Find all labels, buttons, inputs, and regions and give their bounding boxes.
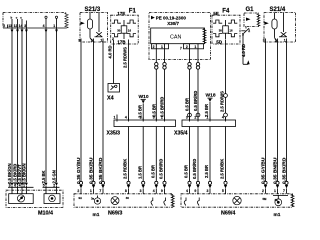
svg-text:1: 1: [53, 24, 55, 28]
svg-text:2: 2: [262, 189, 264, 193]
connector arrows below top-left box: [11, 30, 58, 33]
wire pin1 to M10/4 pin2: [56, 28, 58, 182]
wire CAN-L right to X35/4: [189, 49, 191, 63]
M10/4 pin rail right: [43, 186, 60, 188]
svg-text:W18: W18: [206, 93, 216, 99]
wire CAN-L left to X35/3: [155, 49, 157, 63]
svg-text:4: 4: [19, 183, 21, 187]
svg-text:0.5 BR/RD: 0.5 BR/RD: [192, 159, 197, 179]
wire F4 5D to X35/4 2.5 RD/WS: [220, 47, 228, 120]
svg-text:0.5 BR: 0.5 BR: [151, 165, 156, 178]
wire F1 17B to X4 4.0 RD: [108, 45, 114, 83]
N69/4 internal labels: [263, 197, 279, 202]
M10/4 pin 2: [53, 183, 58, 194]
svg-text:2: 2: [91, 38, 93, 42]
svg-text:2: 2: [77, 189, 79, 193]
svg-text:2.5 GN: 2.5 GN: [52, 170, 57, 183]
M10/4 pin 5: [43, 183, 48, 194]
svg-text:16: 16: [128, 28, 132, 32]
M10/4 motor 2: [49, 195, 56, 202]
svg-text:2: 2: [53, 183, 55, 187]
svg-text:3: 3: [140, 189, 142, 193]
S21/4 actuation arrow: [265, 22, 269, 25]
X35/3 pin 1 stub: [114, 115, 118, 122]
svg-text:0.5 BR: 0.5 BR: [185, 98, 190, 111]
svg-text:3: 3: [78, 38, 80, 42]
connector block X35/4: [174, 120, 236, 137]
S21/3 pin 1: [100, 38, 103, 45]
svg-text:3a: 3a: [91, 197, 95, 201]
svg-text:2.5 RD/WS: 2.5 RD/WS: [220, 91, 225, 112]
svg-text:3: 3: [263, 38, 265, 42]
N69/4 pin 2: [262, 181, 267, 194]
ground W18: [204, 93, 216, 121]
wire to N69/3 pin9 0.5 BR/RD: [159, 127, 165, 182]
svg-text:0.5 BK/GN: 0.5 BK/GN: [21, 164, 26, 184]
N69/3 lock actuator: [111, 197, 119, 205]
S21/3 pin 2: [91, 38, 94, 45]
twisted pair symbol CAN right: [188, 62, 200, 69]
svg-text:4.0 RD: 4.0 RD: [108, 45, 113, 58]
fuse F4 box: [212, 15, 240, 44]
F4 bus bar upper: [213, 20, 237, 23]
coil at CAN box right edge: [203, 29, 206, 44]
svg-text:CAN: CAN: [170, 35, 181, 41]
N69/4 pin 5: [222, 181, 227, 194]
N69/3 pin 9: [161, 181, 166, 194]
svg-text:4: 4: [153, 189, 155, 193]
svg-text:X30/7: X30/7: [167, 21, 179, 26]
N69/4 pin rail: [273, 194, 288, 196]
wire pin4 to M10/4 pin5: [45, 28, 47, 182]
svg-text:9: 9: [161, 189, 163, 193]
ground W10: [137, 94, 148, 120]
svg-text:2.5 BK: 2.5 BK: [41, 170, 46, 183]
svg-text:17E: 17E: [117, 11, 125, 16]
wire S21/4 pin1 to N69/4: [286, 45, 288, 181]
S21/4 pin 2: [275, 38, 278, 45]
M10/4 motor 1: [17, 195, 24, 202]
M10/4 pin 4: [19, 183, 24, 194]
svg-text:16: 16: [229, 28, 233, 32]
svg-text:1: 1: [140, 116, 142, 120]
svg-text:X4: X4: [107, 95, 114, 101]
N69/3 coil right edge: [171, 194, 174, 207]
pin 1: [53, 24, 56, 28]
svg-text:F1: F1: [129, 8, 137, 14]
X35/3 pin 1b: [140, 116, 144, 122]
svg-text:2: 2: [3, 24, 5, 28]
svg-text:3: 3: [153, 116, 155, 120]
coil internal at right edge of top-left box: [65, 13, 68, 28]
svg-text:N69/4: N69/4: [221, 210, 235, 216]
svg-text:PE 00.19-2300: PE 00.19-2300: [156, 15, 187, 20]
svg-text:W10: W10: [139, 94, 149, 100]
M10/4 pin 1: [23, 183, 28, 194]
svg-text:13: 13: [8, 24, 12, 28]
svg-text:8: 8: [125, 189, 127, 193]
fuse F1 box: [111, 15, 139, 44]
wire to N69/4 pin5 2.5 RD/BK: [220, 127, 226, 182]
S21/4 pin 1: [284, 38, 287, 45]
wire pin14 to M10/4 pin4: [21, 28, 23, 182]
svg-text:b: b: [11, 16, 13, 20]
svg-text:0.5 BR/RD: 0.5 BR/RD: [193, 91, 198, 111]
svg-text:4.0 RD: 4.0 RD: [241, 44, 246, 57]
wire S21/3 pin3 to N69/3: [80, 45, 82, 181]
svg-text:4: 4: [125, 116, 127, 120]
svg-text:0.35 GY/BU: 0.35 GY/BU: [76, 157, 82, 184]
X35/3 pin 3: [153, 116, 157, 122]
svg-text:1: 1: [23, 183, 25, 187]
svg-text:1: 1: [90, 189, 92, 193]
svg-text:0.5 BR/RD: 0.5 BR/RD: [159, 159, 164, 179]
N69/4 pin 9: [194, 181, 199, 194]
N69/4 coil right edge: [291, 194, 294, 207]
svg-text:30: 30: [126, 196, 130, 200]
G1 terminal symbol: [241, 27, 250, 37]
X35/4 pin 4: [222, 116, 226, 122]
M10/4 pin 3: [9, 183, 14, 194]
svg-text:1: 1: [100, 38, 102, 42]
svg-text:5E: 5E: [213, 11, 219, 16]
wire to N69/3 pin8 2.5 RD/BK: [123, 127, 129, 182]
wire pin3 to M10/4 pin1: [25, 28, 27, 182]
svg-text:5: 5: [222, 189, 224, 193]
pin 3: [24, 24, 26, 28]
wire pin13 to M10/4 pin3: [11, 28, 13, 182]
X35/4 pin 3: [186, 116, 190, 122]
svg-text:1: 1: [194, 45, 196, 49]
N69/4 pin 3: [207, 181, 212, 194]
N69/4 pin 1: [274, 181, 279, 194]
X35/3 pin 4: [125, 116, 129, 122]
svg-text:2: 2: [194, 116, 196, 120]
svg-text:0.5 BK/GN: 0.5 BK/GN: [7, 164, 12, 184]
svg-text:3: 3: [24, 24, 26, 28]
N69/3 pin 3: [140, 181, 145, 194]
svg-text:m1: m1: [274, 212, 281, 218]
svg-text:6: 6: [14, 183, 16, 187]
S21/3 pin 3: [78, 38, 81, 45]
svg-text:0.35 BK/BU: 0.35 BK/BU: [89, 157, 95, 184]
N69/4 CAN terminal contacts: [184, 198, 199, 206]
svg-text:9A: 9A: [79, 196, 83, 200]
svg-text:0.35 BN/BU: 0.35 BN/BU: [273, 157, 279, 184]
S21/4 switch contact: [279, 13, 287, 37]
F1 bus bar lower: [112, 34, 136, 37]
N69/3 CAN terminal contacts: [151, 198, 166, 206]
wire CAN-H right to X35/4: [197, 49, 199, 63]
svg-text:2.5 BR: 2.5 BR: [204, 165, 209, 178]
svg-text:N69/3: N69/3: [108, 210, 122, 216]
wire pin12 to M10/4 pin6: [17, 28, 19, 182]
wire to N69/3 pin3 1.5 BR: [137, 127, 143, 182]
svg-text:0.35 BK/RD: 0.35 BK/RD: [282, 157, 288, 184]
svg-text:1: 1: [274, 189, 276, 193]
N69/4 motor m1: [274, 195, 282, 218]
F4 output tick: [225, 40, 227, 48]
wire S21/4 pin2 to N69/4: [277, 45, 279, 181]
svg-text:2: 2: [153, 45, 155, 49]
X35/3 pin 2: [161, 116, 165, 122]
switch S21/3 box: [80, 13, 108, 43]
F1 fuse element: [117, 20, 131, 39]
pin 2: [3, 24, 7, 28]
control module box X30/7: [149, 13, 211, 60]
pin 14: [19, 24, 23, 28]
S21/3 illumination lamp: [87, 13, 93, 42]
svg-text:30: 30: [219, 28, 223, 32]
svg-text:12: 12: [14, 24, 18, 28]
svg-text:F4: F4: [222, 8, 230, 14]
svg-text:3: 3: [186, 116, 188, 120]
door module N69/4 box: [181, 194, 293, 207]
S21/3 actuation arrow: [81, 22, 85, 25]
svg-text:0.5 BR/RD: 0.5 BR/RD: [160, 97, 165, 117]
N69/3 pin 1: [90, 181, 95, 194]
wire S21/4 pin3 to N69/4: [265, 45, 267, 181]
switch S21/4 box: [264, 13, 296, 43]
connector X4: [107, 84, 120, 102]
connector block X35/3: [107, 120, 176, 137]
S21/3 switch contact: [95, 13, 103, 37]
svg-text:2: 2: [248, 29, 250, 33]
F1 output ticks: [114, 40, 129, 48]
module reference text PE 00.19-2300: [151, 15, 186, 26]
CAN connector housing left: [152, 44, 169, 50]
svg-text:2.5 RD/BK: 2.5 RD/BK: [123, 159, 128, 179]
svg-text:X35/4: X35/4: [174, 131, 188, 137]
G1 coil at right edge: [257, 14, 260, 27]
twisted pair symbol CAN left: [155, 62, 167, 69]
svg-text:M10/4: M10/4: [38, 210, 53, 216]
svg-text:3: 3: [207, 189, 209, 193]
svg-text:0.35 BK/RD: 0.35 BK/RD: [98, 157, 104, 184]
S21/4 pin 3: [263, 38, 266, 45]
wire CAN-H left to X35/3: [164, 49, 166, 63]
X35/4 pin 1: [206, 116, 210, 122]
pin 12: [14, 24, 18, 28]
F4 fuse element: [219, 20, 233, 39]
pin 4: [43, 24, 46, 28]
M10/4 motor 1 housing: [9, 194, 34, 204]
N69/3 pin 8: [125, 181, 130, 194]
svg-text:4: 4: [186, 189, 188, 193]
N69/4 pin 7: [283, 181, 288, 194]
N69/3 pin 7: [99, 181, 104, 194]
svg-text:7: 7: [283, 189, 285, 193]
N69/3 motor m1: [93, 196, 101, 219]
svg-text:7: 7: [180, 47, 182, 51]
F4 bus bar lower: [213, 34, 237, 37]
internal contact marks above pins: [11, 16, 58, 25]
motor unit M10/4 outer box: [6, 190, 63, 207]
M10/4 motor 2 housing: [44, 194, 60, 204]
svg-text:7: 7: [99, 189, 101, 193]
wire S21/3 pin1 to N69/3: [102, 45, 104, 181]
N69/4 pin 4: [186, 181, 191, 194]
svg-text:9: 9: [194, 189, 196, 193]
svg-text:G1: G1: [246, 7, 255, 13]
svg-text:3: 3: [9, 183, 11, 187]
G1 arrow: [246, 18, 251, 21]
svg-text:4: 4: [222, 116, 224, 120]
svg-text:5: 5: [43, 183, 45, 187]
wire to N69/4 pin4 0.5 BR: [184, 127, 190, 182]
svg-text:17B: 17B: [117, 40, 126, 45]
svg-text:1: 1: [284, 38, 286, 42]
svg-text:2: 2: [161, 116, 163, 120]
svg-text:5M: 5M: [263, 197, 268, 201]
inline connectors on CAN right pair: [188, 113, 200, 117]
svg-text:2.5 RD/WS: 2.5 RD/WS: [123, 47, 128, 68]
S21/4 illumination lamp: [272, 13, 278, 42]
wire to N69/4 pin3 2.5 BR: [204, 127, 210, 182]
svg-text:1: 1: [114, 116, 116, 120]
svg-text:1: 1: [161, 45, 163, 49]
wire to N69/4 pin9 0.5 BR/RD: [192, 127, 198, 182]
CAN controller box: [151, 28, 205, 44]
X35/4 pin 2: [194, 116, 198, 122]
component box top-left door control unit (clipped): [3, 13, 67, 29]
N69/3 pin 2: [77, 181, 82, 194]
door module N69/3 box: [74, 194, 173, 207]
svg-text:5D: 5D: [216, 40, 223, 45]
N69/3 internal labels: [79, 196, 130, 201]
svg-text:30: 30: [117, 28, 121, 32]
battery G1 box: [244, 13, 259, 27]
svg-text:4: 4: [43, 24, 45, 28]
svg-text:1: 1: [206, 116, 208, 120]
M10/4 pin 6: [14, 183, 19, 194]
wire to N69/3 pin4 0.5 BR: [151, 127, 157, 182]
svg-text:2.5 RD/BK: 2.5 RD/BK: [220, 159, 225, 179]
wire S21/3 pin2 to N69/3: [93, 45, 95, 181]
svg-text:1.5 BR: 1.5 BR: [137, 166, 142, 179]
svg-text:0.5 BR: 0.5 BR: [184, 165, 189, 178]
N69/4 lock actuator: [233, 196, 241, 204]
wire G1 feed 4.0 RD: [241, 34, 250, 65]
svg-text:2: 2: [186, 45, 188, 49]
M10/4 pin rail left: [8, 186, 34, 188]
svg-text:S21/4: S21/4: [270, 7, 286, 13]
svg-text:2: 2: [275, 38, 277, 42]
F1 bus bar upper: [112, 20, 136, 23]
CAN connector housing right: [184, 44, 204, 50]
N69/3 pin 4: [153, 181, 158, 194]
svg-text:m1: m1: [93, 212, 100, 218]
svg-text:0.35 GY/BU: 0.35 GY/BU: [261, 157, 267, 184]
pin 13: [8, 24, 12, 28]
svg-text:X35/3: X35/3: [107, 131, 121, 137]
wire F1 to X35/3 2.5 RD/WS: [123, 47, 129, 120]
